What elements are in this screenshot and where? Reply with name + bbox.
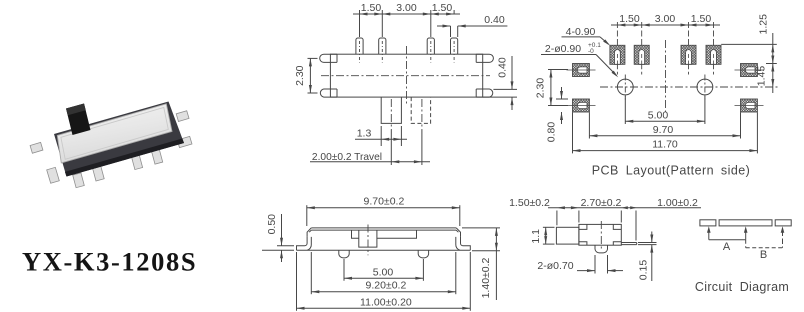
front view: right gull-wing leg [461, 237, 471, 250]
svg-text:9.70±0.2: 9.70±0.2 [364, 196, 405, 208]
side view: pin thickness dimension 0.15 [638, 242, 657, 244]
photo: dark switch body [54, 102, 184, 177]
svg-text:1.50: 1.50 [361, 2, 382, 14]
top view: corner tab bottom-left [320, 89, 337, 97]
svg-text:3.00: 3.00 [655, 13, 676, 25]
top view: corner tab top-right [476, 54, 493, 62]
svg-text:3.00: 3.00 [396, 2, 417, 14]
pcb layout: side pads (hatched stadium) [573, 64, 590, 77]
pcb layout: vertical centerline [665, 40, 667, 112]
pcb layout: left side dimension 2.30 [548, 69, 568, 71]
top view: pin pitch dimension 1.50 / 3.00 / 1.50 [359, 10, 361, 37]
circuit diagram: contact arrows [708, 232, 710, 240]
svg-text:-0: -0 [588, 48, 594, 55]
pcb layout: through hole circles [617, 79, 633, 95]
svg-text:1.3: 1.3 [357, 127, 372, 139]
front view: left chamfer corner [307, 228, 311, 237]
svg-text:11.00±0.20: 11.00±0.20 [360, 296, 412, 308]
svg-text:0.15: 0.15 [638, 260, 650, 281]
pcb layout: dimension 11.70 [572, 113, 574, 154]
circuit diagram: link A (solid) [709, 239, 746, 241]
svg-text:1.50: 1.50 [619, 13, 640, 25]
svg-text:1.25: 1.25 [758, 14, 770, 35]
pcb layout: pad pitch dimension 1.50 / 3.00 / 1.50 [611, 24, 720, 26]
svg-text:2.30: 2.30 [535, 78, 547, 99]
pcb layout: hole pitch dimension 5.00 [624, 96, 626, 124]
circuit diagram: terminal bar common [719, 220, 772, 226]
front view: boss pitch dimension 5.00 [343, 259, 345, 281]
svg-text:9.20±0.2: 9.20±0.2 [366, 280, 407, 292]
front view: bottom locating bosses [339, 250, 349, 258]
top view: slider stem solid position [381, 97, 401, 123]
top view: stem centerlines [390, 99, 392, 130]
top view: tab height dimension 0.40 right side [493, 88, 517, 90]
front view: center actuator knob [352, 230, 359, 238]
side view: slider knob [556, 227, 579, 244]
pcb layout: right side dimension 1.45 [771, 64, 774, 72]
svg-text:2.30: 2.30 [294, 65, 306, 86]
svg-text:2-ø0.70: 2-ø0.70 [537, 260, 573, 272]
svg-text:0.40: 0.40 [484, 14, 505, 26]
top view: corner tab bottom-right [476, 89, 493, 97]
side view: top dimensions 1.50±0.2 / 2.70±0.2 / 1.00±0.2 [556, 211, 558, 226]
front view: top plate [311, 227, 456, 229]
top view: body width dimension 2.30 [308, 57, 318, 59]
side view: vertical centerline [600, 221, 602, 249]
svg-text:0.50: 0.50 [266, 214, 278, 235]
top view: body centerlines [321, 75, 490, 77]
top view: slider stem dashed alternate position [411, 97, 430, 123]
svg-text:Circuit Diagram: Circuit Diagram [695, 280, 789, 294]
svg-text:0.40: 0.40 [497, 57, 509, 78]
photo: left end pins [30, 142, 43, 153]
svg-text:4-0.90: 4-0.90 [566, 26, 596, 38]
front view: dimension 11.00±0.20 [296, 252, 298, 311]
svg-text:1.50: 1.50 [432, 2, 453, 14]
svg-text:0.80: 0.80 [546, 122, 558, 143]
pcb layout: pad centerlines / extension lines [616, 22, 618, 45]
photo: bottom terminal pins [73, 173, 85, 188]
front view: dimension 9.20±0.2 [310, 252, 312, 294]
svg-text:2.00±0.2 Travel: 2.00±0.2 Travel [312, 152, 382, 163]
svg-text:2.70±0.2: 2.70±0.2 [581, 197, 622, 209]
side view: body [579, 224, 621, 245]
top view: switch body outline [330, 54, 482, 97]
photo: metal top cover plate [57, 104, 172, 163]
top view: travel dimension 2.00±0.2 [310, 161, 430, 163]
svg-text:B: B [760, 249, 767, 261]
front view: width dimension 9.70±0.2 [306, 205, 308, 226]
front view: foot thickness dimension 0.50 [277, 245, 294, 247]
side view: knob height dimension 1.1 [543, 226, 555, 228]
svg-text:5.00: 5.00 [373, 266, 394, 278]
pcb layout: dimension 9.70 [588, 113, 590, 139]
svg-text:PCB Layout(Pattern side): PCB Layout(Pattern side) [592, 164, 751, 178]
svg-text:1.00±0.2: 1.00±0.2 [657, 197, 698, 209]
top view: corner tab top-left [320, 54, 337, 62]
photo: black slider knob [66, 104, 91, 136]
svg-text:11.70: 11.70 [652, 139, 678, 151]
pcb layout: solder pads for pins 1-4 (hatched) [610, 45, 625, 64]
circuit diagram: terminal bar 1 [700, 220, 716, 226]
front view: body bottom / seating line [297, 249, 471, 251]
svg-text:1.50±0.2: 1.50±0.2 [509, 197, 550, 209]
photo: right end pins [176, 111, 189, 122]
svg-text:A: A [723, 241, 731, 253]
svg-text:9.70: 9.70 [653, 124, 674, 136]
svg-text:1.1: 1.1 [530, 229, 542, 244]
side view: corner notches [579, 224, 587, 229]
front view: left gull-wing leg [297, 237, 308, 250]
svg-text:1.40±0.2: 1.40±0.2 [480, 257, 492, 298]
pcb layout: right side dimension 1.25 [721, 43, 777, 45]
circuit diagram: terminal bar 2 [775, 220, 791, 226]
svg-text:2-ø0.90: 2-ø0.90 [545, 43, 581, 55]
side view: terminal pin right [621, 243, 636, 245]
svg-text:1.50: 1.50 [691, 13, 712, 25]
svg-text:1.45: 1.45 [756, 66, 768, 87]
pcb layout: horizontal centerline through holes [600, 86, 778, 88]
circuit diagram: link B (dashed) [745, 240, 747, 248]
side view: locating boss [595, 245, 608, 253]
top view: stem width dimension 1.3 [380, 126, 382, 146]
top view: pin width dimension 0.40 [450, 26, 452, 37]
front view: right chamfer corner [456, 228, 460, 237]
pcb layout: left side dimension 0.80 [556, 98, 568, 100]
svg-text:5.00: 5.00 [648, 109, 669, 121]
top view: terminal pins 1-4 on top edge [356, 38, 363, 54]
svg-text:YX-K3-1208S: YX-K3-1208S [22, 247, 197, 277]
front view: height dimension 1.40±0.2 [462, 227, 500, 229]
